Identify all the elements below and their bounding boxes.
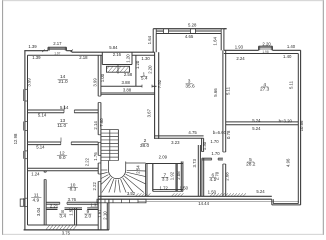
svg-text:1.76: 1.76	[93, 152, 98, 161]
svg-text:4.75: 4.75	[188, 130, 197, 135]
svg-text:1.32: 1.32	[90, 202, 99, 207]
svg-text:3.76: 3.76	[68, 197, 77, 202]
dimension 5.24	[256, 189, 265, 194]
dimension 1.50	[180, 185, 189, 190]
svg-text:3.75: 3.75	[62, 230, 71, 235]
wall room 11 right	[44, 171, 46, 225]
dimension 3.23	[171, 140, 180, 145]
svg-text:1.64: 1.64	[213, 37, 218, 46]
dimension 2.20	[262, 42, 271, 47]
outer wall top center (room 3)	[153, 29, 226, 34]
svg-text:5.24: 5.24	[252, 126, 261, 131]
dimension 2.10	[102, 211, 107, 220]
dimension 2.24	[236, 56, 245, 61]
svg-text:1.30: 1.30	[202, 141, 207, 150]
svg-text:5.24: 5.24	[256, 189, 265, 194]
dimension 2.17	[53, 41, 62, 46]
room 13 label	[57, 118, 67, 129]
window left wall 3	[24, 151, 28, 159]
svg-text:5.28: 5.28	[188, 22, 197, 27]
dimension 1.30	[202, 141, 207, 150]
svg-text:1.97: 1.97	[54, 52, 60, 56]
step wall top center left	[153, 29, 156, 53]
svg-text:2.21: 2.21	[50, 203, 59, 208]
dimension 1.20	[135, 60, 140, 69]
bay window room 4	[259, 46, 273, 50]
svg-text:2.58: 2.58	[124, 72, 133, 77]
dimension 3.88	[123, 88, 132, 93]
dimension 2.21	[50, 203, 59, 208]
dimension 3.99	[92, 78, 97, 87]
room 10 label	[68, 182, 78, 192]
dimension 5.84	[109, 45, 118, 50]
outer wall bottom center	[98, 193, 272, 199]
staircase straight flight	[101, 129, 119, 160]
svg-text:4.96: 4.96	[285, 158, 290, 167]
dimension 2.22	[92, 182, 97, 191]
svg-text:5.14: 5.14	[38, 112, 47, 117]
dimension 1.72	[160, 185, 169, 190]
svg-text:1.39: 1.39	[32, 55, 41, 60]
svg-text:2.22: 2.22	[92, 182, 97, 191]
room 6 walls	[202, 158, 223, 196]
wall room 7 left	[152, 164, 154, 192]
dimension 1.32	[90, 202, 99, 207]
svg-text:3.99: 3.99	[92, 78, 97, 87]
svg-text:2.0: 2.0	[84, 214, 91, 220]
ventilation shaft hatched	[104, 65, 130, 74]
dimension 1.40	[283, 54, 292, 59]
wall room 3 bottom	[155, 136, 204, 138]
svg-text:1.20: 1.20	[125, 54, 130, 63]
dimension 2.58	[124, 72, 133, 77]
dimension 1.92	[170, 171, 175, 180]
dimension 5.11	[226, 86, 231, 95]
interior wall center-left vertical	[98, 55, 101, 230]
dimension 3.04	[36, 207, 41, 216]
room 1 label	[140, 71, 148, 81]
svg-text:3.3: 3.3	[162, 177, 169, 183]
svg-text:1.30: 1.30	[141, 56, 150, 61]
dimension 10.86	[299, 120, 304, 131]
wall between room 12 and rooms 11-10	[28, 168, 99, 171]
dimension 3.99	[26, 78, 31, 87]
dimension 3.73	[192, 159, 197, 168]
dimension b=6.60	[213, 130, 227, 135]
svg-text:12.98: 12.98	[13, 133, 18, 144]
wall room 7 right	[176, 164, 177, 192]
svg-text:2.16: 2.16	[113, 52, 122, 57]
wall corridor bottom	[101, 93, 155, 94]
page border right	[322, 0, 324, 235]
svg-text:3.99: 3.99	[26, 78, 31, 87]
svg-text:3.52: 3.52	[127, 191, 136, 196]
dimension 5.14	[38, 112, 47, 117]
dimension 14.44	[198, 201, 209, 206]
svg-text:5.24: 5.24	[252, 118, 261, 123]
svg-text:1.40: 1.40	[287, 44, 296, 49]
page border top	[3, 0, 324, 2]
dimension 1.24	[31, 172, 40, 177]
dimension 12.98	[13, 133, 18, 144]
svg-text:11.0: 11.0	[57, 123, 66, 129]
svg-text:3.73: 3.73	[192, 159, 197, 168]
dimension 5.14	[36, 145, 45, 150]
wall between rooms 3-4 and room 5 left	[223, 50, 226, 196]
dimension 4.65	[185, 34, 194, 39]
svg-text:35.6: 35.6	[185, 84, 195, 90]
room 9 label	[84, 209, 91, 220]
room 8 label	[59, 209, 66, 220]
dimension 2.14	[93, 121, 98, 130]
tiny window dim room 4	[262, 50, 268, 54]
room 2 label	[140, 138, 150, 149]
dim tick bay left	[42, 49, 44, 52]
dimension 2.16	[113, 52, 122, 57]
dimension 2.68	[224, 172, 229, 181]
svg-text:28.2: 28.2	[246, 162, 256, 168]
svg-text:1.92: 1.92	[170, 171, 175, 180]
svg-text:2.08: 2.08	[176, 171, 181, 180]
dimension 7.60	[99, 118, 104, 127]
dimension 2.08	[176, 171, 181, 180]
dimension 2.54	[136, 165, 141, 174]
svg-text:1.24: 1.24	[31, 172, 40, 177]
dimension 1.50	[68, 207, 73, 216]
outer wall top-left (room 14)	[24, 50, 102, 55]
svg-text:b=6.60: b=6.60	[213, 130, 227, 135]
wall between rooms 13 and 12	[28, 138, 99, 145]
dimension 5.66	[213, 88, 218, 97]
dimension 1.93	[235, 45, 244, 50]
window left wall 1	[24, 89, 28, 101]
svg-text:2.17: 2.17	[53, 41, 62, 46]
room 11 label	[31, 193, 41, 204]
dimension 2.09	[159, 155, 168, 160]
dimension 5.14	[60, 105, 69, 110]
svg-text:1.70: 1.70	[210, 139, 219, 144]
room 4 label	[260, 82, 270, 93]
dimension 2.18	[79, 55, 88, 60]
step wall top center right	[221, 29, 226, 51]
dimension 3.67	[146, 108, 151, 117]
dimension 3.88	[122, 80, 131, 85]
wall room 9 top	[75, 208, 99, 210]
dimension 7.52	[157, 79, 162, 88]
wall room1 bottom	[101, 85, 157, 88]
staircase winder inner rail	[108, 161, 125, 179]
svg-text:5.11: 5.11	[226, 86, 231, 95]
svg-text:2.18: 2.18	[79, 55, 88, 60]
svg-text:5.14: 5.14	[60, 105, 69, 110]
dimension 1.76	[93, 152, 98, 161]
wall room 4 bottom	[226, 122, 299, 125]
room 7 label	[161, 172, 169, 182]
outer wall bottom-left	[24, 226, 109, 230]
svg-text:7.52: 7.52	[157, 79, 162, 88]
svg-text:4.65: 4.65	[185, 34, 194, 39]
svg-text:2.54: 2.54	[136, 165, 141, 174]
dimension 1.39	[28, 44, 37, 49]
outer wall left	[25, 50, 28, 230]
wall hall left	[198, 145, 200, 196]
inner top wall bath block	[132, 54, 155, 56]
radiator outside room 11 window	[20, 199, 24, 206]
svg-text:38.0: 38.0	[140, 143, 150, 149]
wall stairwell right	[146, 164, 147, 197]
svg-text:1.00: 1.00	[100, 73, 105, 82]
svg-text:21.0: 21.0	[58, 79, 68, 85]
svg-text:h=3.20: h=3.20	[279, 118, 293, 123]
dimension 5.28	[188, 22, 197, 27]
svg-text:1.64: 1.64	[147, 35, 152, 44]
wall wc block top	[146, 163, 183, 165]
svg-text:1.50: 1.50	[68, 207, 73, 216]
dimension 1.64	[213, 37, 218, 46]
svg-text:5.66: 5.66	[213, 88, 218, 97]
svg-text:3.88: 3.88	[122, 80, 131, 85]
dimension 1.30	[141, 56, 150, 61]
dimension 1.50	[208, 190, 217, 195]
dimension line 14.44	[138, 200, 299, 202]
svg-text:5.84: 5.84	[109, 45, 118, 50]
window left wall 4	[24, 198, 28, 206]
tiny window dim room 14	[54, 52, 60, 56]
svg-text:1.40: 1.40	[283, 54, 292, 59]
svg-text:7.60: 7.60	[99, 118, 104, 127]
dimension 0.78	[226, 130, 231, 139]
svg-text:2.22: 2.22	[85, 157, 90, 166]
dimension 1.70	[210, 139, 219, 144]
dimension 3.52	[127, 191, 136, 196]
dimension 5.11	[289, 80, 294, 89]
outer wall right	[298, 50, 300, 205]
room 5 label	[246, 157, 256, 168]
svg-text:3.04: 3.04	[36, 207, 41, 216]
dimension h=3.20	[279, 118, 293, 123]
svg-text:9.0: 9.0	[59, 155, 66, 161]
dimension 5.24	[252, 118, 261, 123]
dimension 1.00	[100, 73, 105, 82]
wall room 10 bottom	[46, 202, 98, 204]
svg-text:2.09: 2.09	[159, 155, 168, 160]
dimension 2.22	[85, 157, 90, 166]
svg-text:2.24: 2.24	[236, 56, 245, 61]
stub wall below room 3	[202, 138, 204, 151]
svg-text:2.20: 2.20	[148, 65, 153, 74]
svg-text:3.4: 3.4	[59, 214, 66, 220]
porch strip wall	[107, 199, 109, 230]
dim tick bay right	[71, 49, 73, 52]
outer wall top middle	[72, 51, 155, 53]
outer wall top right	[224, 50, 301, 53]
dimension 3.75	[62, 230, 71, 235]
svg-text:1.20: 1.20	[135, 60, 140, 69]
svg-text:5.11: 5.11	[289, 80, 294, 89]
dimension 1.70	[211, 151, 220, 156]
svg-text:5.4: 5.4	[141, 76, 148, 82]
svg-text:3.88: 3.88	[123, 88, 132, 93]
svg-text:2.20: 2.20	[262, 42, 271, 47]
wall bottom-left inner	[28, 224, 99, 226]
dimension 1.39	[32, 55, 41, 60]
bay window room 14	[48, 47, 66, 51]
page border bottom	[3, 233, 324, 235]
niche top center	[102, 52, 132, 64]
terrace step bottom right	[272, 199, 301, 205]
svg-text:3.23: 3.23	[171, 140, 180, 145]
svg-text:5.14: 5.14	[36, 145, 45, 150]
wall room 7 bottom	[153, 190, 183, 192]
svg-text:2.68: 2.68	[224, 172, 229, 181]
svg-text:2.14: 2.14	[93, 121, 98, 130]
svg-text:10.86: 10.86	[299, 120, 304, 131]
svg-text:2.70: 2.70	[215, 171, 220, 180]
svg-text:1.39: 1.39	[28, 44, 37, 49]
dimension 2.20	[148, 65, 153, 74]
svg-text:4.9: 4.9	[32, 197, 39, 203]
dimension 3.76	[68, 197, 77, 202]
svg-text:1.50: 1.50	[208, 190, 217, 195]
wall room 9 left	[75, 208, 77, 225]
dimension 2.70	[215, 171, 220, 180]
window left wall 2	[24, 122, 28, 131]
svg-text:0.78: 0.78	[226, 130, 231, 139]
svg-text:1.72: 1.72	[160, 185, 169, 190]
svg-text:1.50: 1.50	[180, 185, 189, 190]
svg-text:1.93: 1.93	[235, 45, 244, 50]
wall room 8 top	[46, 208, 75, 210]
room 14 label	[58, 74, 68, 85]
wall room 3 left	[155, 52, 159, 139]
room 6 label	[209, 173, 216, 183]
wall between rooms 14 and 13	[28, 105, 99, 113]
page border left	[2, 0, 4, 235]
dimension 1.20	[125, 54, 130, 63]
svg-text:3.67: 3.67	[146, 108, 151, 117]
svg-text:8.3: 8.3	[70, 187, 77, 193]
dimension 1.61	[97, 209, 102, 218]
staircase east run top edge	[126, 162, 146, 164]
svg-text:1.70: 1.70	[211, 151, 220, 156]
dimension 5.24	[252, 126, 261, 131]
svg-text:27.3: 27.3	[260, 87, 270, 93]
wall room1 left	[135, 55, 137, 86]
staircase winder treads	[101, 170, 146, 193]
porch steps bottom center	[97, 199, 146, 203]
svg-text:2.10: 2.10	[102, 211, 107, 220]
dimension 1.64	[147, 35, 152, 44]
room 3 label	[185, 79, 195, 90]
dimension 4.75	[188, 130, 197, 135]
svg-text:14.44: 14.44	[198, 201, 209, 206]
wall shaft right	[181, 161, 183, 191]
dimension 4.96	[285, 158, 290, 167]
dimension 1.40	[287, 44, 296, 49]
room 12 label	[57, 151, 67, 161]
